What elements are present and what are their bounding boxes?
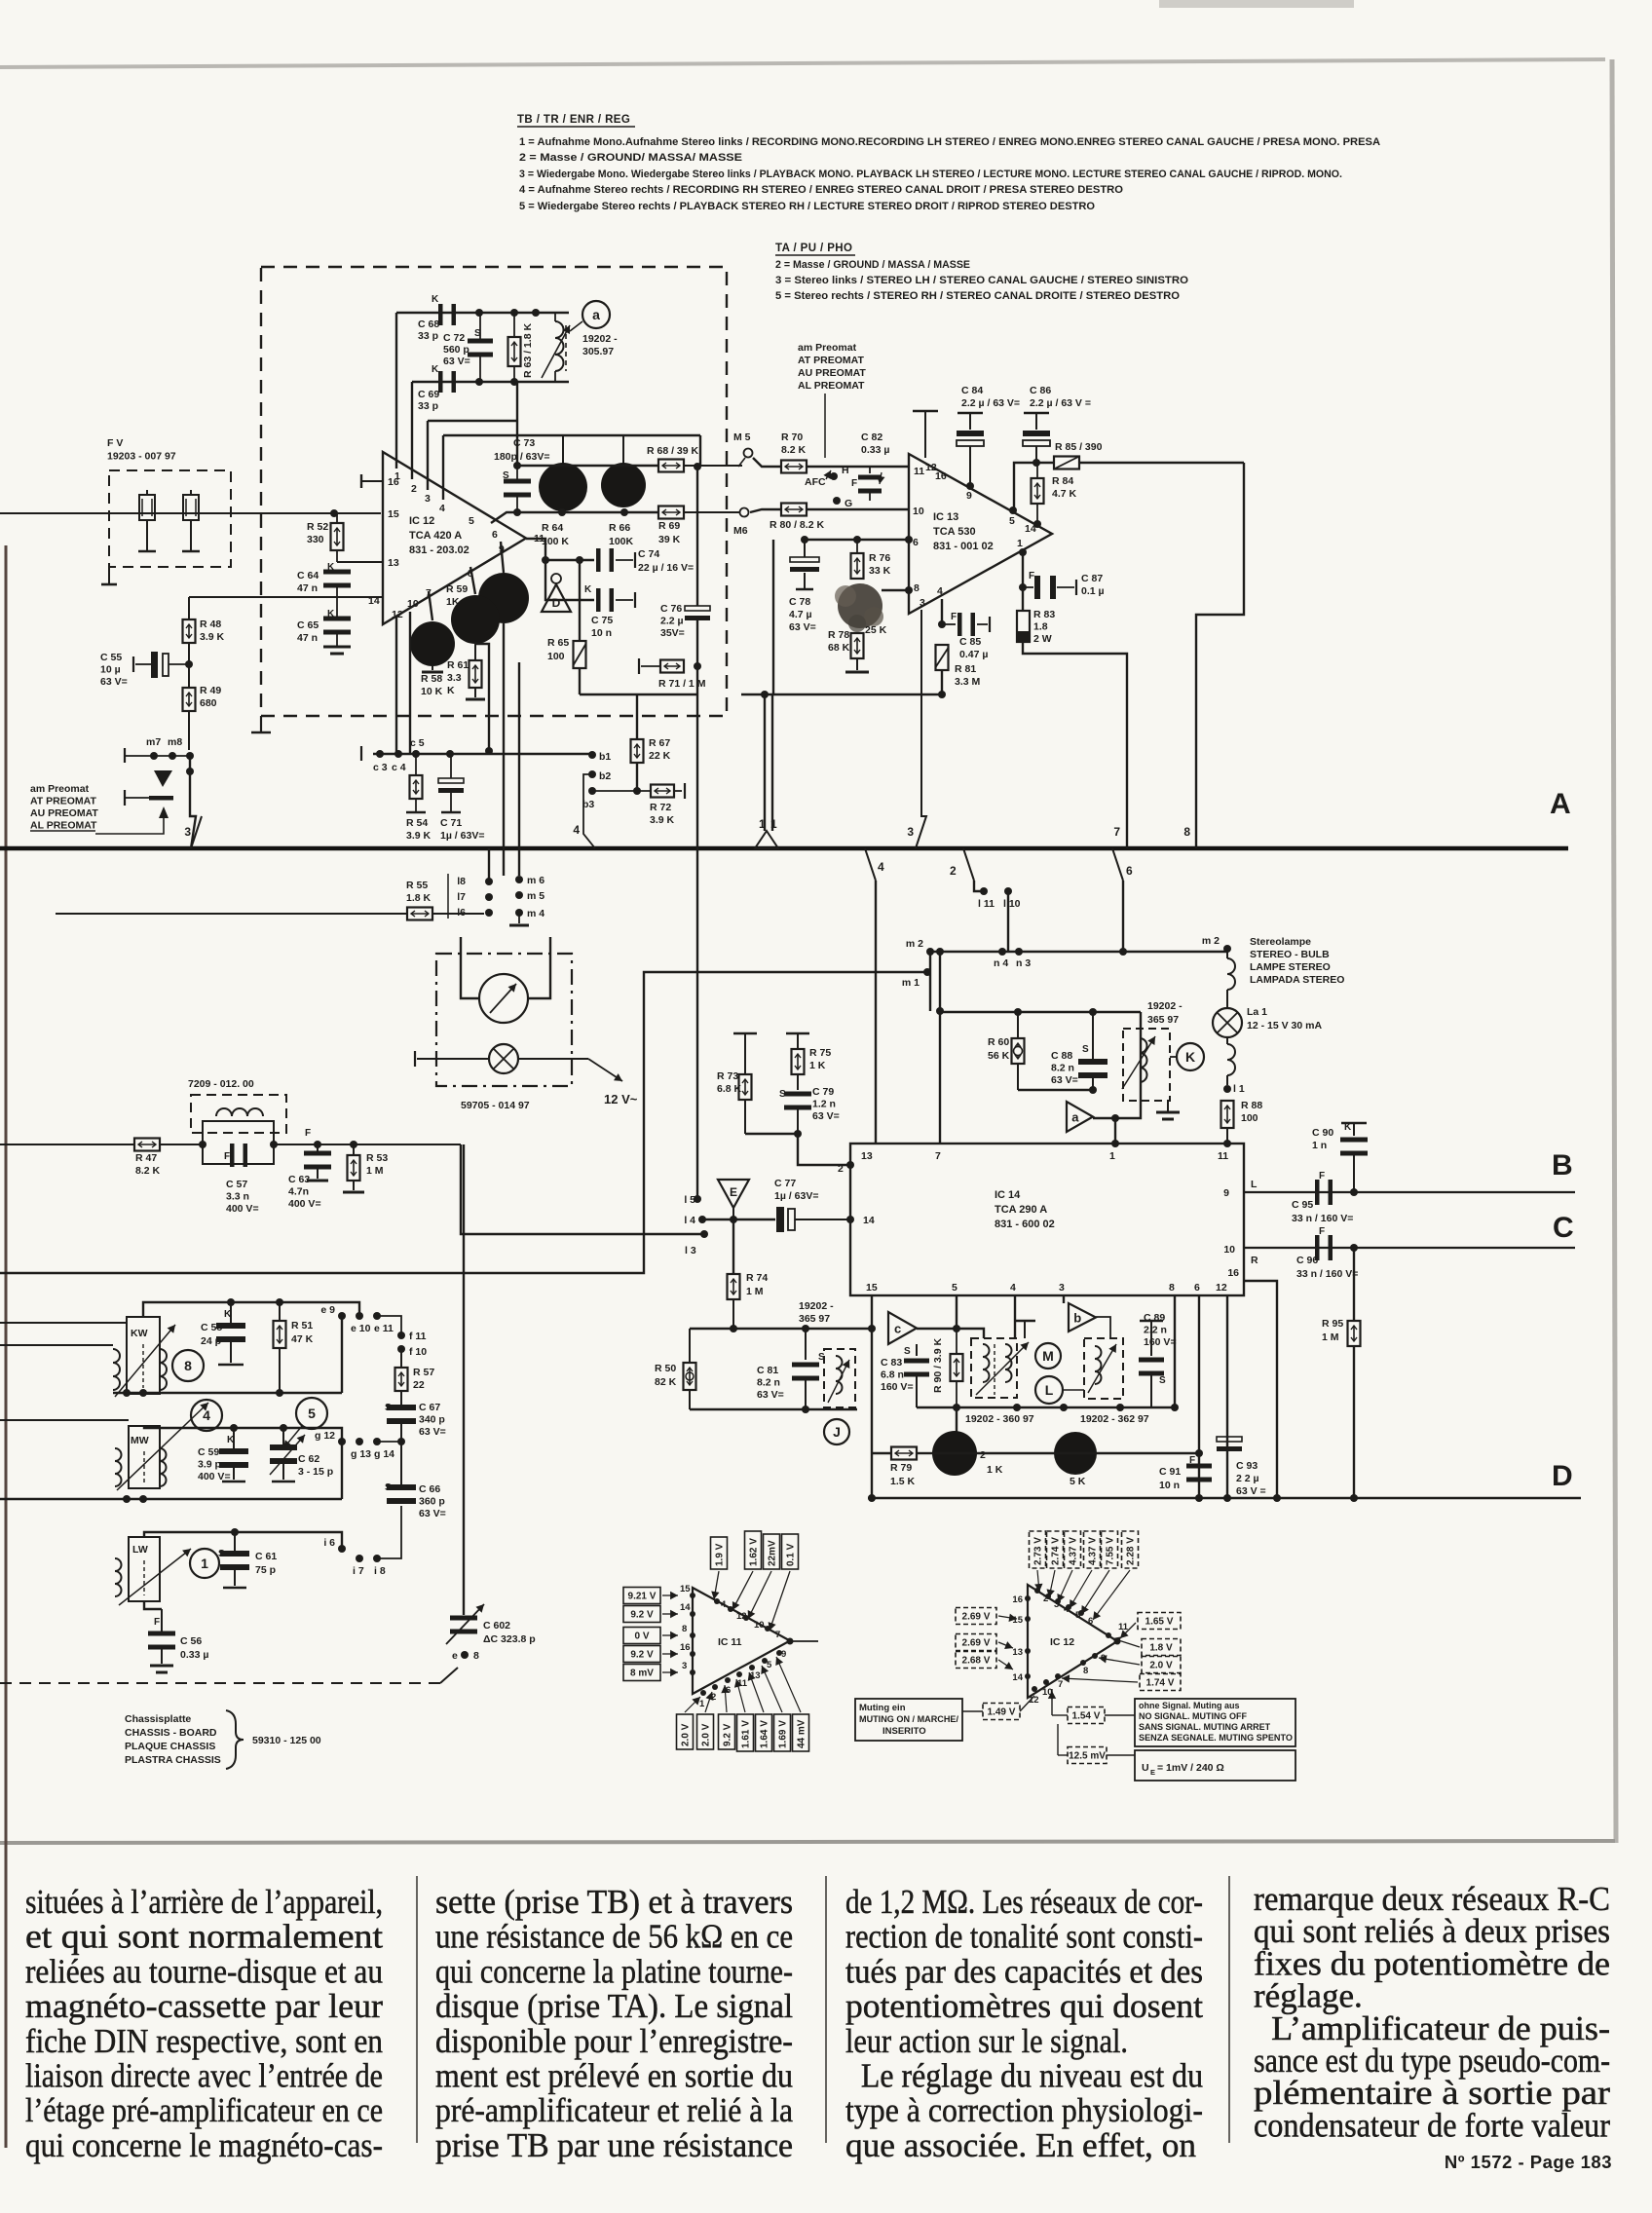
svg-text:1 = Aufnahme Mono.Aufnahme S: 1 = Aufnahme Mono.Aufnahme Stereo links … — [519, 136, 1380, 148]
n4 n3 dots — [998, 948, 1006, 956]
svg-text:8: 8 — [473, 1650, 479, 1662]
svg-text:F: F — [1029, 571, 1034, 581]
KW coils — [113, 1349, 120, 1390]
svg-text:Le réglage du niveau est du: Le réglage du niveau est du — [845, 2057, 1203, 2095]
resistor R57 — [400, 1349, 402, 1368]
wire E to C77 — [702, 1219, 775, 1220]
svg-text:360 p: 360 p — [419, 1496, 445, 1508]
svg-text:1.65 V: 1.65 V — [1145, 1617, 1174, 1628]
svg-text:1.64 V: 1.64 V — [760, 1720, 770, 1748]
svg-text:3: 3 — [907, 825, 914, 839]
svg-text:3.9 p: 3.9 p — [198, 1459, 221, 1471]
svg-text:16: 16 — [388, 476, 399, 488]
R58 ground — [432, 666, 433, 670]
svg-text:59705 - 014 97: 59705 - 014 97 — [461, 1100, 530, 1111]
svg-text:19202 -: 19202 - — [799, 1300, 834, 1312]
svg-text:9.2 V: 9.2 V — [630, 1610, 654, 1621]
C65 ground — [336, 630, 338, 647]
svg-text:TA / PU / PHO: TA / PU / PHO — [775, 243, 852, 254]
svg-text:F: F — [154, 1617, 160, 1628]
svg-text:R: R — [1251, 1255, 1258, 1266]
capacitor C66 — [387, 1484, 416, 1490]
svg-text:IC 12: IC 12 — [1050, 1636, 1074, 1648]
svg-text:7: 7 — [1058, 1679, 1063, 1690]
svg-text:AT PREOMAT: AT PREOMAT — [798, 355, 864, 366]
l11 l10 dots — [980, 887, 988, 895]
svg-text:pré-amplificateur et relié à l: pré-amplificateur et relié à la — [435, 2091, 793, 2129]
svg-text:8: 8 — [914, 582, 920, 594]
capacitor C64 — [323, 570, 351, 575]
svg-text:63 V=: 63 V= — [789, 621, 816, 633]
meter side wires — [461, 937, 479, 998]
svg-text:14: 14 — [1012, 1672, 1023, 1683]
circle J — [824, 1419, 849, 1444]
svg-text:2.69 V: 2.69 V — [962, 1638, 991, 1649]
H G dots — [830, 472, 838, 480]
capacitor C74 — [596, 548, 601, 572]
svg-text:AL PREOMAT: AL PREOMAT — [798, 380, 865, 392]
svg-text:6.8 n: 6.8 n — [881, 1369, 904, 1381]
svg-text:22: 22 — [413, 1379, 425, 1391]
svg-text:= 1mV / 240 Ω: = 1mV / 240 Ω — [1157, 1762, 1224, 1774]
svg-text:4.37 V: 4.37 V — [1088, 1537, 1099, 1565]
svg-text:12: 12 — [1216, 1282, 1227, 1294]
svg-text:R 67: R 67 — [649, 737, 670, 749]
svg-text:C 57: C 57 — [226, 1179, 247, 1190]
resistor R51 — [279, 1302, 281, 1321]
svg-text:C 64: C 64 — [297, 570, 319, 581]
svg-text:l 1: l 1 — [1233, 1083, 1245, 1095]
triangle b — [1069, 1303, 1096, 1332]
svg-text:C 83: C 83 — [881, 1357, 902, 1369]
svg-text:3: 3 — [682, 1661, 687, 1671]
K coil dashed box — [1123, 1029, 1170, 1101]
svg-text:C 79: C 79 — [812, 1086, 834, 1098]
resistor R85 — [1054, 457, 1079, 469]
lamp coil bottom — [1227, 1044, 1235, 1075]
svg-text:E: E — [730, 1185, 737, 1199]
svg-text:3.9 K: 3.9 K — [406, 830, 432, 842]
svg-text:400 V=: 400 V= — [288, 1198, 321, 1210]
circle 1 — [190, 1549, 219, 1578]
svg-text:l8: l8 — [457, 876, 466, 887]
wire R79 row — [932, 1452, 1199, 1454]
svg-text:2.0 V: 2.0 V — [1149, 1661, 1173, 1671]
svg-text:8.2 K: 8.2 K — [135, 1165, 161, 1177]
svg-text:3 = Wiedergabe Mono. Wiederga: 3 = Wiedergabe Mono. Wiedergabe Stereo l… — [519, 169, 1342, 180]
wire b2 to bus stub 4 — [583, 774, 595, 848]
connector X2 — [183, 495, 199, 520]
svg-text:G: G — [845, 498, 852, 509]
wire stub4 down to IC14 pin13 — [875, 881, 877, 1144]
circle a — [582, 301, 610, 328]
svg-text:f 11: f 11 — [409, 1331, 427, 1342]
svg-text:D: D — [552, 596, 561, 610]
svg-text:L: L — [1251, 1179, 1258, 1190]
svg-text:R 78: R 78 — [828, 629, 849, 641]
svg-text:0.33 µ: 0.33 µ — [861, 444, 889, 456]
svg-text:2: 2 — [411, 483, 417, 495]
capacitor C81 — [805, 1329, 807, 1360]
svg-text:15: 15 — [680, 1584, 691, 1594]
svg-text:2: 2 — [950, 864, 957, 878]
svg-text:m 5: m 5 — [527, 890, 544, 902]
svg-text:R 84: R 84 — [1052, 475, 1073, 487]
svg-text:4.7n: 4.7n — [288, 1186, 309, 1198]
svg-text:56 K: 56 K — [988, 1050, 1010, 1062]
C72 stems — [479, 313, 481, 343]
wire rail corner to R68 wire — [699, 435, 701, 466]
resistor R78 — [851, 633, 864, 658]
wire a to IC14 pin1 — [1114, 1118, 1116, 1144]
svg-text:680: 680 — [200, 697, 217, 709]
svg-text:TCA 530: TCA 530 — [933, 526, 976, 538]
capacitor C88 — [1092, 1012, 1094, 1061]
svg-text:8.2 n: 8.2 n — [1051, 1063, 1074, 1074]
svg-text:i 7: i 7 — [353, 1565, 364, 1577]
svg-text:1.9 V: 1.9 V — [715, 1543, 726, 1566]
wire IC12 output — [526, 539, 594, 560]
input wire to pin 15 — [0, 512, 381, 514]
svg-text:R 53: R 53 — [366, 1152, 388, 1164]
svg-text:63 V=: 63 V= — [757, 1389, 784, 1401]
meter circle — [479, 974, 528, 1023]
svg-text:C 88: C 88 — [1051, 1050, 1072, 1062]
transformer dashed box 362 — [1084, 1338, 1123, 1399]
svg-text:R 55: R 55 — [406, 880, 428, 891]
svg-text:C 90: C 90 — [1312, 1127, 1333, 1139]
svg-text:C 602: C 602 — [483, 1620, 510, 1632]
svg-text:KW: KW — [131, 1328, 148, 1339]
svg-text:D: D — [1552, 1460, 1573, 1492]
R95 vertical wire — [1353, 1248, 1355, 1498]
svg-text:e 9: e 9 — [320, 1304, 335, 1316]
svg-text:R 65: R 65 — [547, 637, 569, 649]
svg-text:1.8 K: 1.8 K — [406, 892, 432, 904]
wire filter to l3 — [461, 1144, 704, 1234]
svg-text:33 n / 160 V=: 33 n / 160 V= — [1296, 1268, 1358, 1280]
svg-text:AL PREOMAT: AL PREOMAT — [30, 820, 97, 832]
svg-text:0.1 V: 0.1 V — [786, 1543, 797, 1566]
svg-text:R 61: R 61 — [447, 659, 469, 671]
IC12 test triangle — [1028, 1585, 1117, 1698]
wire e9 down — [341, 1316, 343, 1393]
svg-text:10: 10 — [1223, 1244, 1235, 1256]
svg-text:R 52: R 52 — [307, 521, 328, 533]
svg-text:K: K — [1344, 1122, 1352, 1133]
resistor R79 — [891, 1447, 917, 1460]
bottom gray separator line — [0, 1841, 1615, 1843]
svg-text:1: 1 — [1109, 1150, 1115, 1162]
wire pin2 vertical — [411, 382, 413, 479]
capacitor C72 — [468, 339, 493, 344]
svg-text:0.47 µ: 0.47 µ — [959, 649, 988, 660]
meter unit dash-dot box — [436, 954, 572, 1086]
svg-text:C 91: C 91 — [1159, 1466, 1181, 1478]
svg-text:9.2 V: 9.2 V — [723, 1723, 733, 1746]
svg-text:2.74 V: 2.74 V — [1051, 1537, 1062, 1565]
IC11 apex — [787, 1638, 794, 1645]
R67 vertical — [636, 694, 638, 739]
svg-text:1: 1 — [201, 1556, 208, 1571]
capacitor C58 — [230, 1302, 232, 1325]
capacitor C87 — [1023, 586, 1033, 588]
svg-text:F: F — [851, 478, 857, 489]
svg-text:1K: 1K — [446, 596, 460, 608]
IC12 left dashed boxes — [956, 1608, 996, 1625]
svg-text:C 63: C 63 — [288, 1174, 310, 1185]
svg-text:l 3: l 3 — [685, 1245, 696, 1257]
svg-text:C 75: C 75 — [591, 615, 613, 626]
resistor R71 — [641, 665, 661, 667]
svg-text:m7: m7 — [146, 736, 161, 748]
svg-text:K: K — [227, 1435, 235, 1445]
bottom rail y1445 — [917, 1407, 1175, 1408]
wire R85 rail — [1014, 463, 1244, 510]
svg-text:R 81: R 81 — [955, 663, 976, 675]
svg-text:10: 10 — [913, 506, 924, 517]
svg-text:2.2 µ / 63 V =: 2.2 µ / 63 V = — [1030, 397, 1091, 409]
svg-text:12 - 15 V 30 mA: 12 - 15 V 30 mA — [1247, 1020, 1322, 1031]
svg-text:10: 10 — [754, 1620, 765, 1631]
junction dots C69 rail — [475, 378, 483, 386]
svg-text:S: S — [385, 1482, 392, 1493]
svg-text:ment est prélevé en sortie du: ment est prélevé en sortie du — [435, 2057, 793, 2095]
LW rail bottom — [144, 1601, 162, 1609]
svg-text:C: C — [1553, 1212, 1574, 1244]
svg-text:l6: l6 — [457, 907, 466, 919]
svg-text:B: B — [1552, 1149, 1573, 1182]
svg-text:10: 10 — [407, 598, 419, 610]
svg-text:63 V=: 63 V= — [100, 676, 128, 688]
svg-text:7: 7 — [775, 1630, 780, 1640]
1.49V box — [983, 1704, 1020, 1720]
wire y713 rail — [580, 694, 697, 695]
op-amp IC12 triangle — [383, 452, 526, 624]
lamp La1 — [1213, 1008, 1242, 1037]
l1 dot — [1223, 1085, 1231, 1093]
svg-text:R 59: R 59 — [446, 583, 468, 595]
svg-text:100K: 100K — [609, 536, 634, 547]
wire R85 dogleg to bus stub 8 — [1196, 463, 1244, 848]
potentiometer blob 5K — [1054, 1432, 1097, 1475]
svg-text:16: 16 — [1012, 1594, 1023, 1605]
svg-text:11: 11 — [1218, 1150, 1228, 1162]
resistor R80 — [781, 504, 807, 516]
wire pin15 down — [871, 1295, 873, 1329]
m2 m1 rail — [926, 948, 934, 956]
KW rail top — [143, 1302, 359, 1317]
svg-text:a: a — [1071, 1110, 1079, 1125]
svg-text:15: 15 — [388, 508, 399, 520]
svg-text:4: 4 — [878, 860, 884, 874]
svg-text:24 p: 24 p — [201, 1335, 221, 1347]
svg-text:R 66: R 66 — [609, 522, 630, 534]
resistor R95 — [1348, 1321, 1361, 1346]
bus A stub 1 1 junction — [755, 831, 778, 848]
svg-text:C 95: C 95 — [1292, 1199, 1313, 1211]
wire C602 vertical — [463, 1144, 465, 1615]
svg-text:3.3: 3.3 — [447, 672, 462, 684]
svg-text:m 4: m 4 — [527, 908, 544, 919]
wire R47 input — [0, 1144, 135, 1145]
svg-text:5 = Wiedergabe Stereo recht: 5 = Wiedergabe Stereo rechts / PLAYBACK … — [519, 201, 1095, 212]
wire R55 — [56, 913, 408, 915]
svg-text:2.2 n: 2.2 n — [1144, 1325, 1167, 1336]
g12 g13 g14 contacts — [338, 1438, 346, 1445]
svg-text:R 79: R 79 — [890, 1462, 912, 1474]
svg-text:6: 6 — [913, 537, 919, 548]
svg-text:5: 5 — [767, 1660, 772, 1670]
wire c-row — [373, 753, 592, 755]
svg-text:potentiomètres qui dosent: potentiomètres qui dosent — [845, 1987, 1203, 2025]
wire pin6 left corner down — [772, 540, 774, 694]
wire pin6 rail — [805, 539, 909, 541]
svg-text:63 V=: 63 V= — [1051, 1074, 1078, 1086]
FV dashed box — [109, 470, 231, 567]
IC12 stage dashed enclosure — [261, 267, 727, 716]
filter coil — [216, 1108, 263, 1116]
svg-text:8.2 K: 8.2 K — [781, 444, 807, 456]
wire pin6 down — [1198, 1295, 1200, 1498]
IC11 bottom voltage boxes — [677, 1714, 694, 1749]
svg-text:19202 -: 19202 - — [582, 333, 618, 345]
op-amp IC13 triangle — [909, 454, 1052, 614]
svg-text:C 96: C 96 — [1296, 1255, 1318, 1266]
svg-text:l 4: l 4 — [684, 1215, 695, 1226]
svg-text:33 K: 33 K — [869, 565, 891, 577]
svg-text:4.37 V: 4.37 V — [1069, 1537, 1079, 1565]
svg-text:15: 15 — [866, 1282, 878, 1294]
svg-text:1.2 n: 1.2 n — [812, 1099, 836, 1110]
wire smudge to pin8 — [882, 589, 909, 591]
bus A stub 2 below — [963, 848, 974, 881]
svg-text:2.68 V: 2.68 V — [962, 1656, 991, 1667]
1.54V box — [1068, 1707, 1105, 1724]
svg-text:C 76: C 76 — [660, 603, 682, 615]
column separator 3 — [1228, 1876, 1230, 2143]
long wire y1307 to m1 — [0, 972, 927, 1273]
svg-text:6: 6 — [1088, 1616, 1093, 1627]
IC11 top voltage boxes — [711, 1537, 728, 1569]
capacitor C69 — [438, 371, 443, 393]
svg-text:1 n: 1 n — [1312, 1140, 1327, 1151]
svg-text:180p / 63V=: 180p / 63V= — [494, 451, 550, 463]
MW rail bottom — [0, 1498, 342, 1500]
svg-text:liaison directe avec l’entrée: liaison directe avec l’entrée de — [25, 2057, 383, 2095]
svg-text:5: 5 — [308, 1406, 316, 1421]
svg-text:4: 4 — [573, 823, 580, 837]
svg-text:1 K: 1 K — [987, 1464, 1003, 1476]
svg-text:M: M — [1042, 1348, 1054, 1364]
capacitor C57 — [230, 1144, 235, 1167]
svg-text:R 85 / 390: R 85 / 390 — [1055, 441, 1103, 453]
wire g12 down — [341, 1442, 343, 1499]
svg-text:400 V=: 400 V= — [226, 1203, 259, 1215]
capacitor C73 — [504, 479, 531, 484]
svg-text:1 M: 1 M — [746, 1286, 764, 1297]
f11 f10 contacts — [397, 1332, 405, 1339]
wire C73 riser — [516, 382, 518, 466]
wire c rail — [917, 1329, 984, 1338]
potentiometer blob 1K — [956, 1407, 957, 1432]
svg-text:63 V=: 63 V= — [812, 1110, 840, 1122]
svg-text:16: 16 — [680, 1642, 691, 1653]
svg-text:R 80 / 8.2 K: R 80 / 8.2 K — [770, 519, 824, 531]
svg-text:63 V=: 63 V= — [419, 1508, 446, 1519]
svg-text:La 1: La 1 — [1247, 1006, 1267, 1018]
connector X1 — [139, 495, 155, 520]
svg-text:J: J — [833, 1424, 841, 1440]
svg-text:K: K — [447, 685, 455, 696]
svg-text:5: 5 — [952, 1282, 957, 1294]
svg-text:l7: l7 — [457, 891, 466, 903]
svg-text:59310 - 125 00: 59310 - 125 00 — [252, 1735, 321, 1746]
svg-text:R 90 / 3.9 K: R 90 / 3.9 K — [932, 1338, 944, 1393]
svg-text:K: K — [584, 584, 592, 595]
svg-text:c 3: c 3 — [373, 762, 388, 773]
svg-text:1.69 V: 1.69 V — [778, 1720, 789, 1748]
resistor R69 — [658, 506, 684, 519]
svg-text:C 78: C 78 — [789, 596, 810, 608]
svg-text:H: H — [842, 465, 849, 476]
svg-text:R 72: R 72 — [650, 802, 671, 813]
IC11 test triangle — [693, 1588, 790, 1694]
svg-text:330: 330 — [307, 534, 324, 545]
resistor R75 — [792, 1049, 805, 1074]
svg-text:M6: M6 — [733, 525, 748, 537]
wire m8 to bus A — [190, 756, 196, 848]
IC13 output pin1 — [1019, 548, 1027, 556]
wire l8 to bus — [488, 848, 490, 881]
wire i8 to C66 — [377, 1506, 401, 1558]
K circuit ground — [1167, 1101, 1169, 1111]
svg-text:C 89: C 89 — [1144, 1312, 1165, 1324]
wire pin1 vertical — [395, 313, 397, 469]
resistor R70 — [781, 461, 807, 473]
svg-text:K: K — [327, 562, 335, 573]
svg-text:5: 5 — [1009, 515, 1015, 527]
R73 R75 top stubs — [733, 1032, 757, 1035]
svg-text:3: 3 — [425, 493, 431, 505]
svg-text:3.9 K: 3.9 K — [650, 814, 675, 826]
wire R73 C79 join — [745, 1133, 798, 1135]
svg-text:l 10: l 10 — [1003, 898, 1021, 910]
svg-text:S: S — [1159, 1375, 1166, 1386]
svg-text:leur action sur le signal.: leur action sur le signal. — [845, 2022, 1128, 2060]
svg-text:MW: MW — [131, 1435, 149, 1446]
svg-text:IC 13: IC 13 — [933, 511, 958, 523]
svg-text:am Preomat: am Preomat — [30, 783, 90, 795]
svg-text:qui concerne le magnéto-cas-: qui concerne le magnéto-cas- — [25, 2126, 383, 2164]
wire C75 rail — [545, 560, 594, 600]
svg-text:47 n: 47 n — [297, 632, 318, 644]
svg-text:IC 12: IC 12 — [409, 515, 434, 527]
svg-text:AFC: AFC — [805, 476, 826, 488]
svg-text:33 n / 160 V=: 33 n / 160 V= — [1292, 1213, 1353, 1224]
wire output to bus stub 7 — [1023, 642, 1127, 848]
capacitor C68 — [438, 304, 443, 325]
filter out wire — [274, 1144, 461, 1145]
svg-text:100: 100 — [547, 651, 565, 662]
MW coils — [115, 1448, 122, 1486]
svg-text:1.54 V: 1.54 V — [1072, 1711, 1101, 1722]
svg-text:1µ / 63V=: 1µ / 63V= — [774, 1190, 818, 1202]
svg-text:f 10: f 10 — [409, 1346, 427, 1358]
svg-text:AU PREOMAT: AU PREOMAT — [30, 807, 98, 819]
wire pin7 vertical — [939, 952, 941, 1144]
svg-text:condensateur de forte valeur: condensateur de forte valeur — [1254, 2106, 1610, 2144]
